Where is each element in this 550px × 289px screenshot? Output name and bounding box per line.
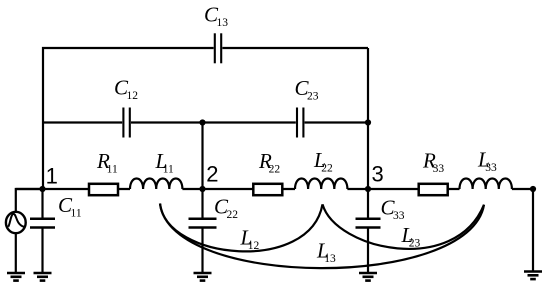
wire source bottom lead — [15, 233, 17, 273]
wire mid row right (C23 to right vertical) — [305, 121, 368, 123]
wire top loop left (x43 vertical + top horizontal to C13) — [43, 48, 214, 189]
wire node2 vertical (mid row to node 2) — [201, 123, 203, 190]
inductor L11 — [130, 179, 182, 190]
wire C33 top lead — [367, 189, 369, 219]
capacitor C13 — [215, 33, 221, 63]
capacitor C22 — [189, 219, 217, 228]
resistor R33 — [419, 184, 448, 195]
wire mid row left (node1 vertical to C12) — [43, 121, 122, 123]
svg-text:3: 3 — [372, 162, 384, 187]
wire source top lead — [16, 189, 43, 212]
capacitor C12 — [123, 108, 129, 138]
node 3 junction — [365, 186, 371, 192]
ground (C22) — [194, 273, 212, 281]
resistor R11 — [89, 184, 118, 195]
wire right vertical (top wire to node 3) — [367, 48, 369, 189]
wire top loop right (C13 to right vertical) — [222, 47, 368, 49]
wire C11 bottom lead — [41, 228, 43, 274]
ground (C33) — [359, 273, 377, 281]
capacitor C23 — [297, 108, 303, 138]
inductor L33 — [460, 179, 512, 190]
mutual inductance L12 arc — [160, 204, 323, 252]
inductor L22 — [295, 179, 347, 190]
wire main right end — [512, 188, 533, 190]
mutual inductance L23 arc — [323, 204, 485, 249]
node 2 junction — [199, 186, 205, 192]
svg-text:1: 1 — [46, 164, 58, 189]
wire C22 bottom lead — [201, 228, 203, 274]
wire mid row center (C12 to C23) — [131, 121, 296, 123]
wire main node1 to R11 — [16, 188, 130, 190]
wire C22 top lead — [201, 189, 203, 219]
ground (load) — [524, 272, 542, 280]
resistor R22 — [253, 184, 282, 195]
ground (source) — [7, 273, 25, 281]
source U1 (pulse generator) — [6, 212, 26, 233]
svg-text:2: 2 — [206, 161, 218, 186]
wire C33 bottom lead — [367, 228, 369, 274]
node 1 junction — [39, 186, 45, 192]
mid-row node3 junction — [365, 119, 371, 125]
wire C11 top lead — [41, 189, 43, 219]
wire main node3 segment — [347, 188, 459, 190]
mid-row node2 junction — [199, 119, 205, 125]
load junction — [530, 186, 536, 192]
wire main node2 segment — [182, 188, 295, 190]
wire right load vertical — [532, 189, 534, 272]
mutual inductance L13 arc — [160, 204, 484, 269]
ground (C11) — [34, 273, 52, 281]
capacitor C11 — [30, 219, 55, 228]
capacitor C33 — [356, 219, 381, 228]
